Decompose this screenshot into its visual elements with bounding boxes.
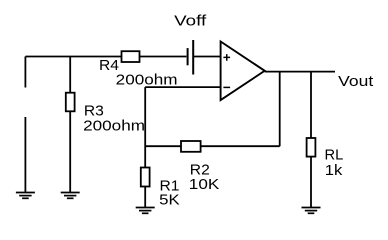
svg-text:200ohm: 200ohm bbox=[83, 118, 145, 135]
wire inverting node vertical bbox=[144, 87, 146, 167]
battery Voff negative plate bbox=[187, 48, 189, 65]
wire feedback bottom right segment bbox=[201, 145, 280, 147]
wire top rail from open terminal to R4 bbox=[25, 56, 121, 58]
svg-text:Vout: Vout bbox=[338, 73, 374, 90]
resistor R3 bbox=[66, 93, 75, 112]
wire junction drop to R3 bbox=[69, 57, 71, 93]
svg-text:1k: 1k bbox=[325, 162, 343, 179]
resistor R4 bbox=[122, 51, 140, 62]
resistor R2 bbox=[181, 141, 201, 152]
ground bbox=[302, 208, 321, 214]
svg-text:5K: 5K bbox=[159, 192, 180, 209]
wire inverting input bbox=[145, 86, 220, 88]
wire feedback vertical riser bbox=[279, 72, 281, 147]
svg-text:Voff: Voff bbox=[174, 13, 207, 30]
svg-text:200ohm: 200ohm bbox=[116, 72, 178, 89]
wire output bbox=[265, 71, 335, 73]
node open terminal upper segment bbox=[24, 57, 26, 88]
node open terminal lower segment bbox=[24, 117, 26, 193]
ground bbox=[61, 193, 80, 199]
wire battery to op-amp plus input bbox=[193, 56, 220, 58]
svg-text:RL: RL bbox=[325, 147, 344, 164]
op-amp U1 triangle bbox=[221, 42, 265, 101]
resistor RL bbox=[307, 138, 316, 157]
battery Voff positive plate bbox=[192, 40, 194, 75]
resistor R1 bbox=[141, 168, 150, 187]
svg-text:10K: 10K bbox=[189, 176, 220, 193]
ground bbox=[136, 208, 155, 214]
wire R3 to ground bbox=[69, 111, 71, 192]
op-amp plus pin mark bbox=[223, 54, 230, 61]
wire output drop to RL bbox=[310, 72, 312, 138]
op-amp minus pin mark bbox=[223, 86, 230, 88]
wire feedback bottom left segment bbox=[145, 145, 181, 147]
wire R4 to battery bbox=[140, 56, 187, 58]
wire RL to ground bbox=[310, 157, 312, 208]
ground bbox=[16, 193, 35, 199]
wire R1 to ground bbox=[144, 187, 146, 208]
